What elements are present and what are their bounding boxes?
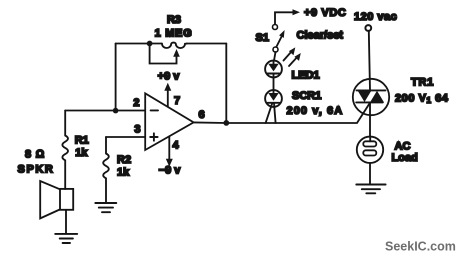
label LED1 [292,70,320,82]
label R2 value 1k [117,167,130,179]
label +9 VDC [304,7,346,19]
ground under speaker [55,234,77,243]
svg-text:7: 7 [174,95,180,107]
svg-text:SPKR: SPKR [18,163,55,175]
op-amp U1 [145,93,193,150]
pin 3 [134,124,140,136]
switch S1 top terminal [273,25,278,30]
wiper arrowhead [173,49,180,57]
wire: R2 to op-amp non-inverting input [106,136,145,138]
wire: R3 top wire left segment [116,43,162,45]
triac TR1 [353,79,389,115]
svg-text:200 v, 6A: 200 v, 6A [287,105,344,117]
wire: speaker to ground [65,210,67,234]
label TR1 [411,76,434,88]
svg-text:1k: 1k [117,167,130,179]
svg-text:200 V1 64: 200 V1 64 [395,92,449,105]
svg-text:120 vac: 120 vac [354,11,397,23]
pin 6 [199,109,205,121]
label R3 [167,14,181,26]
pin 7 [174,95,180,107]
op-amp plus marking [150,133,157,140]
svg-text:+9 v: +9 v [158,71,181,83]
label SCR1 [292,90,321,102]
svg-text:6: 6 [199,109,205,121]
label AC [395,141,411,153]
label 8 ohm [25,149,45,161]
AC load [357,137,383,163]
wire: R3 right segment [187,43,227,45]
+9VDC arrowhead [293,9,301,15]
label 200 v, 6A [287,105,344,117]
svg-text:−9 v: −9 v [159,165,182,177]
ground under AC load [356,185,385,194]
svg-text:8 Ω: 8 Ω [25,149,45,161]
node: junction dot wiper tie [147,41,153,47]
node: junction dot at left rail / inverting input [113,108,119,114]
svg-text:R3: R3 [167,14,181,26]
svg-text:Clear/set: Clear/set [297,30,344,42]
label R1 value 1k [75,147,88,159]
wire: 120 vac to TR1 [369,31,370,90]
op-amp minus marking [151,109,158,111]
label SPKR [18,163,55,175]
svg-text:AC: AC [395,141,411,153]
wire: SCR1 gate [266,103,273,123]
speaker SPKR [40,181,73,218]
wire: S1 to LED1 [274,52,276,61]
+9v supply arrow [164,83,171,107]
LED1 [265,61,282,78]
wire: TR1 to AC load [369,102,371,136]
svg-text:TR1: TR1 [411,76,434,88]
label R2 [117,154,131,166]
wire: right rail down to output [225,44,227,123]
LED1 emission arrows [284,47,301,66]
label 200 V1 64 [395,92,449,105]
svg-text:S1: S1 [256,32,269,44]
svg-text:3: 3 [134,124,140,136]
switch S1 lever [276,30,284,47]
SCR1 [265,90,282,107]
svg-text:R1: R1 [75,134,89,146]
wire: R3 wiper loop [150,44,177,64]
wire: SCR1 cathode down to output wire [274,107,275,123]
pin 4 [173,140,180,152]
svg-text:LED1: LED1 [292,70,320,82]
label Load [392,152,418,164]
svg-text:1 MEG: 1 MEG [155,27,193,39]
resistor R2 [103,137,109,203]
label R1 [75,134,89,146]
svg-text:R2: R2 [117,154,131,166]
svg-text:2: 2 [133,97,139,109]
node: output junction dot [223,120,229,126]
watermark SeekIC.com [385,240,456,254]
-9v supply arrow [166,137,173,167]
wire: LED1 to SCR1 [273,77,275,90]
label Clear/set [297,30,344,42]
label 120 vac [354,11,397,23]
switch S1 bottom terminal [273,47,278,52]
ground under R2 [95,203,116,212]
label 1 MEG [155,27,193,39]
label S1 [256,32,269,44]
label +9 v [158,71,181,83]
svg-text:SCR1: SCR1 [292,90,321,102]
terminal: 120 vac [365,25,371,31]
svg-text:+9 VDC: +9 VDC [304,7,346,19]
svg-text:4: 4 [173,140,180,152]
wire: R1 top to op-amp inverting input [65,110,145,112]
label -9 v [159,165,182,177]
wire: op-amp output to SCR gate and TR1 gate [194,103,370,123]
svg-text:1k: 1k [75,147,88,159]
svg-text:Load: Load [392,152,418,164]
wire: AC load to ground [369,163,371,184]
wire: left rail up to R3 [115,44,117,111]
svg-text:SeekIC.com: SeekIC.com [385,240,456,254]
resistor R1 [62,111,68,190]
resistor R3 1 MEG potentiometer body [162,43,187,49]
wire: +9VDC feed [275,12,293,24]
pin 2 [133,97,139,109]
